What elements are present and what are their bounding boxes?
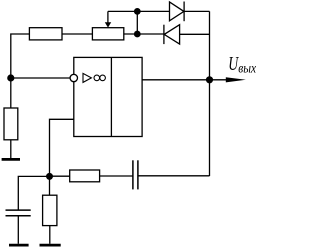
- wire: [136, 11, 138, 34]
- wire: [209, 11, 211, 176]
- wire: [49, 226, 51, 244]
- wire: [11, 34, 30, 108]
- inverting input bubble: [70, 74, 77, 81]
- svg-text:вых: вых: [238, 60, 256, 75]
- node J1: [7, 74, 14, 81]
- wire: [184, 10, 209, 12]
- label Uvyh: [228, 51, 256, 75]
- wire: [138, 175, 210, 177]
- capacitor C3: [133, 160, 138, 189]
- wire: [142, 79, 209, 81]
- wire: [124, 33, 164, 35]
- wire: [18, 176, 49, 210]
- ground: [40, 244, 61, 247]
- node J2: [46, 173, 53, 180]
- resistor R1: [29, 28, 62, 40]
- wire: [108, 10, 170, 12]
- potentiometer R2: [92, 11, 123, 40]
- wire: [50, 175, 70, 177]
- wire: [49, 176, 51, 195]
- node B: [134, 31, 141, 38]
- wire: [62, 33, 92, 35]
- resistor R5: [70, 170, 100, 182]
- diode VD1: [170, 2, 185, 22]
- resistor R4: [43, 195, 57, 225]
- wire: [11, 77, 70, 79]
- capacitor C2: [6, 210, 31, 216]
- resistor R3: [4, 108, 18, 140]
- diode VD2: [164, 25, 180, 44]
- ground: [2, 158, 20, 161]
- op-amp DA1: [74, 57, 142, 136]
- ground: [9, 244, 29, 247]
- wire: [17, 216, 19, 244]
- wire: [50, 119, 74, 173]
- wire: [100, 175, 133, 177]
- node A: [134, 8, 141, 15]
- wire: [180, 33, 210, 35]
- node output: [206, 76, 213, 83]
- output arrow: [210, 77, 246, 82]
- wire: [10, 140, 12, 158]
